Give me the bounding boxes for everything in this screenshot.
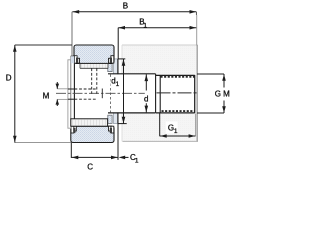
svg-text:C: C: [87, 163, 93, 172]
seal lips bottom: [73, 128, 75, 133]
svg-text:B: B: [123, 1, 128, 10]
right washer (unsectioned): [114, 59, 119, 124]
dimension d: [145, 74, 149, 112]
full complement roller bar (bottom half): [71, 119, 108, 126]
hidden stud step (dashed): [110, 75, 112, 113]
label d1: [111, 77, 118, 87]
dimension M: [56, 82, 60, 106]
outer ring top section: [74, 45, 114, 63]
svg-text:M: M: [43, 91, 50, 100]
stud head plate: [68, 60, 71, 128]
dimension D: [13, 45, 72, 143]
lubrication hole M: [57, 89, 97, 100]
centerline left view: [56, 92, 145, 94]
thread hatch bottom: [162, 110, 195, 112]
flange sectioned caps: [71, 56, 74, 63]
outer ring bottom section: [71, 126, 114, 142]
svg-text:1: 1: [143, 22, 147, 29]
svg-text:d: d: [144, 94, 148, 103]
center cross tick: [101, 89, 103, 99]
svg-text:1: 1: [174, 128, 178, 135]
label G1: [166, 122, 178, 134]
svg-text:D: D: [6, 74, 12, 83]
stud smooth section (white, diameter d): [108, 74, 156, 112]
svg-text:G M: G M: [215, 89, 230, 98]
needle rollers top: [80, 63, 109, 68]
grey stud silhouette: [122, 45, 198, 141]
stud centerline: [157, 92, 198, 94]
dimension G M: [197, 74, 226, 113]
lubrication duct dashed: [92, 68, 97, 94]
threaded stud end: [156, 74, 195, 113]
dimension B: [72, 10, 197, 55]
svg-text:1: 1: [135, 157, 139, 164]
svg-text:1: 1: [116, 81, 120, 88]
seal lips top: [76, 58, 78, 63]
dimension G1: [160, 114, 196, 138]
dimension B1: [118, 26, 196, 59]
flange washer plate: [71, 56, 75, 119]
cage section squares: [108, 63, 112, 71]
thread hatch top: [161, 76, 195, 78]
dimension C1 leader: [119, 156, 129, 160]
dimension C: [71, 124, 118, 160]
dimension d1: [118, 59, 127, 124]
